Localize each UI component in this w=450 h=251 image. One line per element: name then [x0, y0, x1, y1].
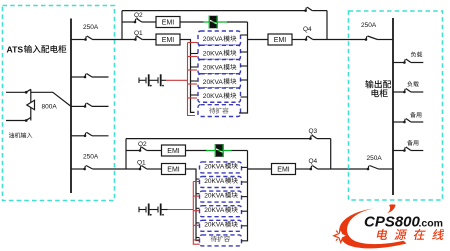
wire AC stub module 6 (system 2) [196, 237, 201, 239]
module M3 20KVA (system 1) [198, 60, 241, 74]
EMI filter U2 (rectifier input, system 1) [156, 34, 180, 45]
wire ATS pole vertical [30, 89, 32, 120]
svg-text:20KVA: 20KVA [203, 50, 224, 57]
cabinet output (dashed cyan box) [349, 11, 443, 200]
wire static switch to collector bus [227, 21, 248, 23]
module M4 20KVA (system 1) [198, 74, 241, 88]
wire battery to DC bus (red, system 2) [168, 209, 194, 211]
EMI filter U1 (bypass input, system 1) [156, 17, 180, 28]
breaker maintenance bypass top [304, 7, 327, 39]
wire DC stub module 3 (system 2) [193, 195, 204, 197]
wire DC stub module 4 (system 2) [193, 210, 204, 212]
wire EMI to Q4 [292, 39, 306, 41]
wire collector bus to output EMI [248, 39, 269, 41]
svg-text:EMI: EMI [162, 37, 175, 44]
breaker Q3 (maintenance bypass, system 2) [309, 135, 331, 169]
svg-text:250A: 250A [361, 22, 377, 29]
wire DC stub module 3 [188, 69, 198, 71]
breaker 250A (output cabinet, system 2 feed) [367, 166, 393, 171]
wire AC stub module 5 (system 2) [196, 222, 201, 224]
wire module AC input bus (black, system 2) [196, 169, 202, 241]
svg-text:20KVA: 20KVA [204, 207, 225, 214]
breaker Q1 (system 2) [139, 166, 162, 171]
svg-text:EMI: EMI [162, 20, 175, 27]
svg-text:250A: 250A [367, 155, 383, 162]
wire DC stub module 1 [188, 42, 198, 44]
wire output stub module 5 (system 2) [242, 225, 248, 227]
breaker Q4 (system 2 output) [310, 166, 369, 171]
wire output stub module 3 [241, 65, 248, 67]
wire maintenance bypass bottom [126, 138, 310, 140]
svg-text:250A: 250A [83, 154, 99, 161]
wire riser system 1 [121, 11, 123, 40]
wire AC stub module 3 (system 2) [196, 193, 201, 195]
ATS transfer switch 800A [6, 89, 71, 122]
wire EMI to module input bus (system 2) [186, 168, 197, 170]
wire output stub module 4 (system 2) [242, 210, 248, 212]
svg-text:20KVA: 20KVA [203, 65, 224, 72]
svg-text:Q4: Q4 [309, 158, 318, 165]
EMI filter U3 (output, system 1) [268, 34, 292, 45]
svg-text:Q2: Q2 [138, 141, 147, 148]
wire EMI to static switch (system 2) [186, 150, 208, 152]
wire AC stub module 4 (system 2) [196, 207, 201, 209]
EMI filter U6 (output, system 2) [272, 164, 296, 175]
static bypass switch (anti-parallel SCR, system 1) [203, 16, 227, 29]
module M9 20KVA (system 2) [200, 191, 242, 202]
svg-text:800A: 800A [42, 104, 58, 111]
wire static switch to collector bus (system 2) [232, 150, 248, 152]
module M2 20KVA (system 1) [198, 45, 241, 59]
svg-text:Q1: Q1 [137, 160, 146, 167]
cabinet ATS input (dashed cyan box) [3, 6, 115, 201]
ATS selector triangle [27, 100, 35, 109]
svg-text:Q3: Q3 [309, 128, 318, 135]
wire output stub module 2 (system 2) [242, 181, 248, 183]
label 负载 1 [411, 51, 416, 57]
breaker spare branch 4 [71, 132, 109, 137]
wire output stub module 1 [241, 34, 248, 36]
wire output stub module 3 (system 2) [242, 196, 248, 198]
wire EMI to Q4 (system 2) [296, 168, 311, 170]
label 输出配电柜 [365, 80, 373, 88]
wire DC stub module 2 [188, 56, 198, 58]
wire collector bus to output EMI (system 2) [248, 168, 272, 170]
module M8 20KVA (system 2) [200, 177, 242, 188]
svg-text:20KVA: 20KVA [204, 193, 225, 200]
breaker spare branch 2 [71, 74, 109, 79]
bus input cabinet vertical [70, 19, 72, 194]
module M1 20KVA (system 1) [198, 31, 241, 45]
wire maintenance bypass top [122, 10, 306, 12]
svg-text:250A: 250A [83, 24, 99, 31]
svg-text:Q2: Q2 [134, 12, 143, 19]
svg-text:EMI: EMI [167, 167, 180, 174]
module M12 expansion slot (system 2) [200, 235, 242, 246]
svg-text:EMI: EMI [167, 148, 180, 155]
svg-text:ATS: ATS [7, 44, 24, 54]
wire mains input [6, 91, 26, 93]
wire DC stub module 2 (system 2) [193, 181, 204, 183]
EMI filter U4 (bypass input, system 2) [162, 145, 186, 156]
wire module output collector bus (system 1) [239, 22, 248, 113]
breaker load branch 1 [393, 59, 423, 64]
wire module DC input bus (red, system 1) [188, 43, 196, 116]
battery string B2 (system 2) [139, 204, 168, 216]
svg-text:20KVA: 20KVA [203, 79, 224, 86]
battery string B1 (system 1) [139, 74, 166, 86]
wire DC stub module 6 (system 2) [193, 239, 204, 241]
svg-text:Q4: Q4 [303, 26, 312, 33]
module M7 20KVA (system 2) [200, 162, 242, 173]
wire module DC input bus (red, system 2) [193, 182, 204, 245]
svg-text:20KVA: 20KVA [204, 222, 225, 229]
breaker Q2 (system 1) [122, 19, 156, 24]
wire DC stub module 5 (system 2) [193, 224, 204, 226]
wire output stub module 5 [241, 96, 248, 98]
module M10 20KVA (system 2) [200, 206, 242, 217]
breaker 250A top (input feed to UPS system 1) [71, 36, 135, 41]
wire module output collector bus (system 2) [241, 151, 248, 241]
wire AC stub module 3 [191, 66, 199, 68]
wire EMI to static switch [180, 21, 204, 23]
svg-text:CPS800: CPS800 [364, 214, 421, 231]
wire AC stub module 2 [191, 53, 199, 55]
wire DC stub module 4 [188, 83, 198, 85]
svg-text:20KVA: 20KVA [204, 178, 225, 185]
label 油机输入 [9, 132, 14, 137]
breaker 250A (output cabinet, system 1 feed) [365, 36, 393, 41]
breaker spare branch 1 (output) [393, 119, 423, 124]
svg-text:20KVA: 20KVA [203, 93, 224, 100]
wire ATS output to bus [31, 92, 71, 106]
wire AC stub module 5 [191, 94, 199, 96]
breaker Q2 (system 2) [126, 147, 162, 152]
wire DC stub module 5 [188, 97, 198, 99]
wire output stub module 4 [241, 79, 248, 81]
breaker 250A bottom (input feed to UPS system 2) [71, 166, 140, 171]
label 备用 1 [410, 112, 416, 118]
svg-text:EMI: EMI [277, 167, 290, 174]
breaker spare branch 2 (output) [393, 147, 423, 152]
wire battery to DC bus (red) [166, 79, 188, 81]
module M6 expansion slot (system 1) [198, 105, 241, 117]
svg-text:.com: .com [419, 218, 444, 230]
svg-text:Q1: Q1 [134, 30, 143, 37]
bus output cabinet vertical [392, 18, 394, 195]
wire AC stub module 4 [191, 80, 199, 82]
wire riser system 2 [125, 139, 127, 169]
module M11 20KVA (system 2) [200, 220, 242, 231]
logo text 电源在线 [376, 229, 388, 240]
logo sparkle star [334, 229, 348, 243]
breaker spare branch 3 [71, 103, 109, 108]
svg-text:EMI: EMI [274, 37, 287, 44]
svg-text:20KVA: 20KVA [203, 36, 224, 43]
wire AC stub module 2 (system 2) [196, 178, 201, 180]
wire EMI to module input bus [180, 39, 191, 41]
breaker load branch 2 [393, 89, 423, 94]
wire generator input [6, 120, 26, 122]
breaker Q4 (system 1 output) [305, 36, 366, 41]
logo swoosh C [339, 209, 406, 249]
static bypass switch (anti-parallel SCR, system 2) [206, 144, 232, 157]
label 负载 2 [407, 81, 412, 87]
module M5 20KVA (system 1) [198, 88, 241, 102]
EMI filter U5 (rectifier input, system 2) [162, 164, 186, 175]
wire module AC input bus (black, system 1) [191, 40, 195, 113]
breaker Q1 (system 1) [134, 36, 156, 41]
wire output stub module 2 [241, 51, 248, 53]
wire output stub module 1 (system 2) [242, 166, 248, 168]
svg-text:20KVA: 20KVA [204, 163, 225, 170]
logo comma tip [387, 204, 396, 213]
label 备用 2 [407, 140, 413, 146]
